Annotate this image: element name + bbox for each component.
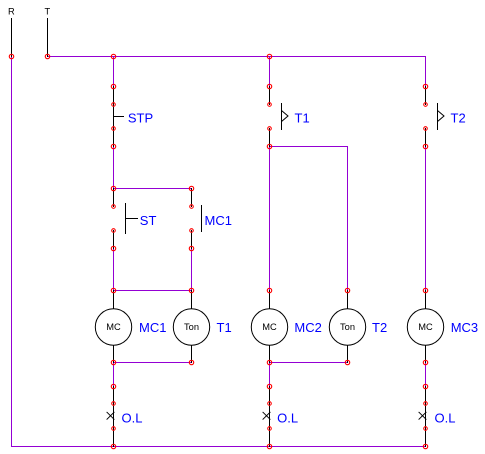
svg-text:MC3: MC3 [451,320,478,335]
svg-text:T2: T2 [451,111,466,126]
node bottom bus col3 [267,444,271,448]
source T pin [47,19,49,57]
svg-text:Ton: Ton [184,322,199,332]
node above coil MC1 [111,288,115,292]
wire: T1 contact down to MC2 coil [269,147,271,291]
wire: rung3 to O.L [425,363,427,387]
wire: coil bottom rung1 horizontal [114,362,192,364]
svg-text:MC1: MC1 [205,213,232,228]
node junction above ST [111,186,115,190]
terminal STP top [112,103,116,107]
svg-text:T: T [44,7,50,17]
node below coil MC3 [423,360,427,364]
wire: MC1 contact to Ton T1 node [191,249,193,291]
node T rail top [45,54,49,58]
node col3 below T1 [267,144,271,148]
svg-text:MC: MC [262,322,277,332]
node bus col1 [111,54,115,58]
terminal O.L rung1 bottom [112,427,116,431]
node bottom bus col1 [111,444,115,448]
node below MC1 contact [189,246,193,250]
node below coil Ton T1 [189,360,193,364]
node col3 above T1 [267,84,271,88]
wire: bus to STP [113,57,115,87]
terminal O.L rung3 top [424,402,428,406]
terminal MC1 contact top [190,205,194,209]
node above coil Ton T1 [189,288,193,292]
svg-text:ST: ST [140,213,157,228]
svg-text:O.L: O.L [122,410,143,425]
terminal T1 bottom [268,127,272,131]
node above O.L rung2 [267,384,271,388]
coil MC3 [407,291,443,363]
node below coil MC1 [111,360,115,364]
terminal O.L rung3 bottom [424,427,428,431]
coil Ton T1 [173,291,209,363]
node above O.L rung1 [111,384,115,388]
svg-text:O.L: O.L [277,410,298,425]
svg-text:Ton: Ton [340,322,355,332]
node below coil Ton T2 [345,360,349,364]
wire: branch down to Ton T2 coil [347,147,349,291]
svg-text:R: R [8,7,15,17]
terminal MC1 contact bottom [190,229,194,233]
source R pin [11,19,13,57]
node above coil MC2 [267,288,271,292]
terminal ST top [112,205,116,209]
node above coil Ton T2 [345,288,349,292]
node R rail top [9,54,13,58]
node above O.L rung3 [423,384,427,388]
overload O.L rung3 body [419,387,426,447]
node col1 above STP [111,84,115,88]
terminal O.L rung2 bottom [268,427,272,431]
terminal O.L rung1 top [112,402,116,406]
node col5 above T2 [423,84,427,88]
wire: left rail R vertical [11,57,13,447]
contact MC1 (NO aux) body [192,189,202,249]
wire: rung1 to O.L [113,363,115,387]
overload O.L rung2 body [263,387,270,447]
pushbutton STP (NC) body [114,87,124,147]
svg-text:T1: T1 [295,111,310,126]
wire: branch to MC1 contact [114,188,192,190]
svg-text:STP: STP [128,111,153,126]
terminal STP bottom [112,127,116,131]
svg-text:T2: T2 [372,320,387,335]
wire: top bus horizontal [48,56,426,58]
terminal T1 top [268,103,272,107]
terminal T2 bottom [424,127,428,131]
wire: bus to T1 contact [269,57,271,87]
terminal O.L rung2 top [268,402,272,406]
wire: ST to MC1 coil node [113,249,115,291]
terminal T2 top [424,103,428,107]
wire: top bus drop to T2 contact [425,57,427,87]
wire: branch to Ton T2 horizontal [270,146,348,148]
coil MC2 [251,291,287,363]
wire: rung2 to O.L [269,363,271,387]
overload O.L rung1 body [107,387,114,447]
wire: coil top rung1 horizontal [114,290,192,292]
wire: bottom bus horizontal [12,446,426,448]
node junction above MC1 contact [189,186,193,190]
coil MC1 [95,291,131,363]
node col1 below STP [111,144,115,148]
timer contact T2 (NO timed) body [426,87,445,147]
terminal ST bottom [112,229,116,233]
svg-text:MC: MC [106,322,121,332]
svg-text:MC: MC [418,322,433,332]
wire: T2 contact down to MC3 coil [425,147,427,291]
node above coil MC3 [423,288,427,292]
wire: coil bottom rung2 horizontal [270,362,348,364]
node below ST [111,246,115,250]
svg-text:MC2: MC2 [294,320,321,335]
coil Ton T2 [329,291,365,363]
svg-text:T1: T1 [217,320,232,335]
wire: STP to ST junction [113,147,115,189]
node bottom bus col5 [423,444,427,448]
node below coil MC2 [267,360,271,364]
node col5 below T2 [423,144,427,148]
pushbutton ST (NO) body [114,189,138,249]
svg-text:MC1: MC1 [139,320,166,335]
timer contact T1 (NO timed) body [270,87,289,147]
svg-text:O.L: O.L [435,410,456,425]
node bus col3 [267,54,271,58]
